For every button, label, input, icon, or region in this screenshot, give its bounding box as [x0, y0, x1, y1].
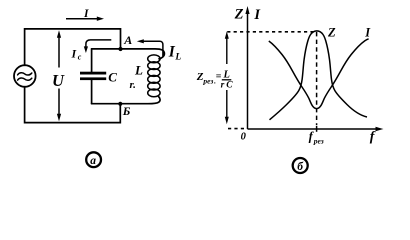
current arrow Ic — [84, 40, 112, 53]
wire: inner loop bottom — [92, 97, 160, 104]
tick at f res — [316, 126, 318, 132]
dotted connector at axis level — [228, 128, 246, 130]
svg-text:рез: рез — [202, 77, 213, 86]
Zres measuring double arrow — [225, 31, 229, 124]
svg-text:L: L — [223, 70, 230, 81]
svg-text:L: L — [174, 53, 181, 63]
svg-text:I: I — [83, 8, 89, 20]
wire: capacitor branch vertical top — [91, 49, 93, 72]
svg-text:C: C — [108, 69, 117, 84]
voltage arrow U — [57, 30, 61, 121]
svg-text:C: C — [226, 81, 233, 91]
svg-text:a: a — [90, 155, 96, 167]
capacitor C plates — [80, 72, 106, 80]
svg-text:0: 0 — [241, 131, 247, 142]
wire: capacitor branch vertical bottom — [91, 80, 93, 104]
node B (Cyrillic) — [118, 102, 122, 106]
svg-text:рез: рез — [313, 137, 324, 146]
dotted level line at Zres — [227, 31, 316, 33]
svg-text:c: c — [78, 53, 82, 62]
badge (a) — [86, 152, 101, 167]
svg-text:Z: Z — [234, 7, 244, 23]
svg-text:Б: Б — [122, 104, 131, 118]
badge (b) — [293, 158, 308, 173]
svg-text:U: U — [52, 71, 65, 90]
current arrow I (top) — [66, 17, 104, 21]
svg-text:A: A — [123, 33, 132, 47]
wire: outer top — [25, 29, 121, 65]
Z curve (impedance peak) — [270, 31, 368, 120]
formula Zres = L/(rC) — [196, 70, 234, 91]
wire: inner loop top — [92, 49, 165, 59]
svg-text:r.: r. — [130, 79, 136, 91]
I curve (current dip) — [269, 39, 369, 109]
AC source G1 — [14, 65, 36, 87]
svg-text:r: r — [221, 80, 225, 90]
node A — [118, 47, 122, 51]
wire: outer bottom — [25, 87, 121, 123]
svg-text:L: L — [134, 63, 143, 78]
y axis — [245, 6, 249, 129]
inductor L coil — [148, 55, 160, 97]
svg-text:Z: Z — [327, 25, 336, 39]
x axis — [248, 127, 384, 131]
dashed resonance vertical line — [316, 32, 318, 125]
current arrow IL — [137, 39, 163, 56]
